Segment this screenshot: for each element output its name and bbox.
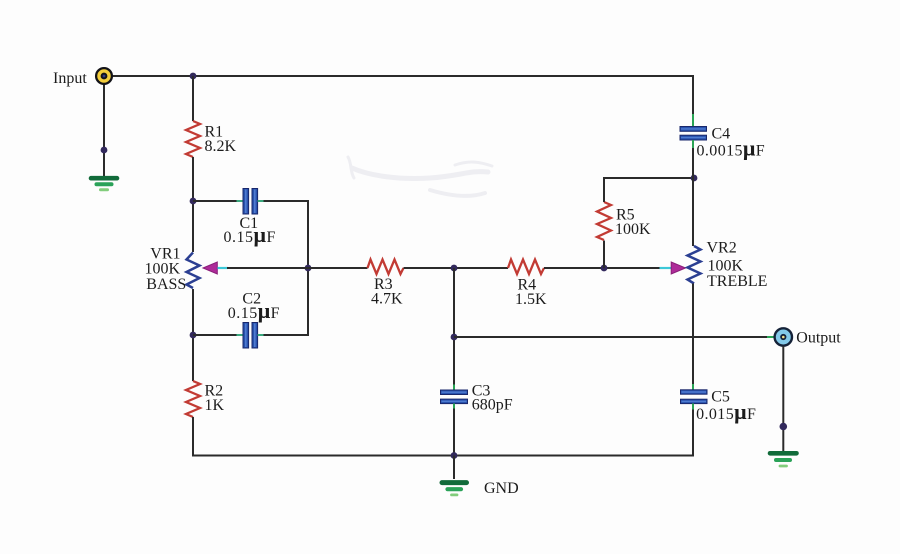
svg-text:C4: C4: [712, 126, 731, 143]
wire wiper cyan VR1: [218, 267, 229, 269]
svg-text:100K: 100K: [145, 261, 181, 278]
wire VR1 bottom to R2: [192, 289, 194, 381]
wire right rail C4 to VR2: [692, 148, 694, 246]
svg-text:4.7K: 4.7K: [371, 291, 403, 308]
svg-text:BASS: BASS: [146, 276, 186, 293]
wire C5 green stub bottom: [692, 404, 694, 411]
svg-text:TREBLE: TREBLE: [707, 273, 767, 290]
wire C2 branch right: [264, 334, 310, 336]
svg-text:100K: 100K: [708, 258, 744, 275]
potentiometer VR2: [688, 246, 701, 284]
wire wiper rail to R3: [227, 267, 368, 269]
wire C3 green stub bottom: [453, 404, 455, 410]
wire C5 green stub top: [692, 384, 694, 391]
ground (input): [91, 178, 117, 190]
label R1 8.2K: [205, 124, 237, 156]
label R4 1.5K: [515, 277, 547, 309]
wire C1 teal stub left: [237, 200, 244, 202]
label R2 1K: [205, 383, 225, 415]
wire R4 to VR2: [544, 267, 660, 269]
label C1 0.15uF: [224, 215, 276, 247]
wire GND stub: [453, 456, 455, 480]
label C5 0.015uF: [696, 389, 756, 425]
node C1 branch: [190, 198, 197, 205]
wire C4 green stub top: [692, 114, 694, 127]
potentiometer VR1: [187, 253, 200, 289]
wire R5 top to C4 junction: [603, 177, 694, 202]
node mid rail branch: [451, 334, 458, 341]
svg-text:VR2: VR2: [707, 240, 737, 257]
wire R3 to R4: [404, 267, 509, 269]
label VR1 100K BASS: [145, 246, 187, 294]
capacitor C3: [441, 390, 468, 404]
svg-text:100K: 100K: [615, 221, 651, 238]
wire C2 teal stub right: [258, 334, 265, 336]
label R3 4.7K: [371, 276, 403, 308]
svg-text:C5: C5: [711, 389, 730, 406]
wire C3 green stub top: [453, 385, 455, 392]
svg-text:1.5K: 1.5K: [515, 291, 547, 308]
svg-text:1K: 1K: [205, 397, 225, 414]
capacitor C2: [243, 323, 258, 349]
wire VR2 bottom through mid rail to C5: [692, 284, 694, 386]
wiper arrow VR1: [203, 262, 217, 274]
wire output green stub: [767, 336, 776, 338]
svg-text:Input: Input: [53, 70, 87, 87]
capacitor C1: [243, 189, 258, 215]
wire box right vertical: [307, 201, 309, 335]
wire wiper cyan VR2: [660, 267, 672, 269]
ground (output): [770, 453, 797, 466]
wire output stub down: [782, 346, 784, 451]
svg-text:GND: GND: [484, 480, 519, 497]
connector Output jack: [775, 328, 792, 345]
label R5 100K: [615, 207, 651, 239]
wire C4 green stub bottom: [692, 140, 694, 149]
wire left rail: top junction to R1: [192, 76, 194, 121]
wire C1 branch right: [264, 200, 310, 202]
svg-text:Output: Output: [796, 329, 841, 346]
node C3 top branch: [451, 265, 458, 272]
resistor R2: [186, 381, 200, 417]
wire C2 branch left: [193, 334, 238, 336]
node A top of R1: [190, 73, 197, 80]
node C4 bottom junction: [691, 175, 698, 182]
wire C3 riser from wiper rail: [453, 268, 455, 386]
resistor R5: [597, 202, 611, 240]
resistor R1: [186, 121, 200, 157]
wire C1 branch left: [193, 200, 238, 202]
node R5 branch: [601, 265, 608, 272]
node C2 branch: [190, 332, 197, 339]
capacitor C5: [681, 390, 708, 404]
wire top rail input to top-right corner: [112, 75, 694, 77]
wire right rail top (corner down to C4): [692, 75, 694, 115]
svg-text:680pF: 680pF: [472, 397, 513, 414]
wiper arrow VR2: [671, 262, 685, 274]
node output ground stub: [780, 423, 788, 431]
node on input stub: [101, 147, 108, 154]
wire R5 riser: [603, 241, 605, 269]
connector Input jack: [96, 68, 112, 84]
capacitor C4: [680, 127, 707, 141]
label C4 0.0015uF: [697, 126, 766, 161]
label C3 680pF: [472, 382, 513, 413]
svg-text:8.2K: 8.2K: [205, 138, 237, 155]
label C2 0.15uF: [228, 291, 280, 324]
resistor R3: [368, 260, 404, 275]
wire C5 bottom to bottom rail corner: [692, 410, 694, 457]
wire mid rail to output: [454, 336, 768, 338]
resistor R4: [508, 260, 544, 275]
node wiper rail at box: [305, 265, 312, 272]
wire R2 bottom to corner: [192, 417, 694, 457]
wire C3 bottom to bottom rail: [453, 409, 455, 456]
wire input stub down to ground: [103, 84, 105, 176]
wire C2 teal stub left: [237, 334, 244, 336]
label VR2 100K TREBLE: [707, 240, 768, 291]
wire R1 bottom to VR1 top: [192, 157, 194, 252]
wire C1 teal stub right: [258, 200, 265, 202]
ground GND: [442, 483, 467, 495]
node bottom rail GND: [451, 452, 458, 459]
